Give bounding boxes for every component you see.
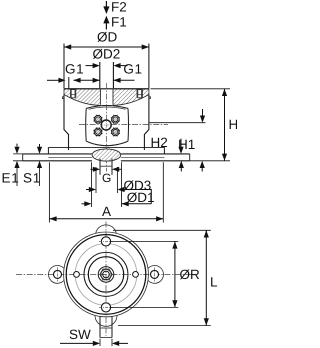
bottom view centerline vertical — [105, 222, 107, 337]
bell housing outer wall left — [64, 95, 69, 151]
stud circle inner — [101, 269, 111, 279]
flange lip left — [63, 97, 65, 99]
bell foot edges — [48, 147, 164, 154]
svg-text:H: H — [229, 117, 238, 132]
side hole east — [133, 272, 139, 278]
svg-text:ØD2: ØD2 — [93, 47, 121, 62]
dimension H — [190, 89, 239, 161]
dimension G1 left — [65, 61, 100, 76]
plate ear west — [49, 266, 64, 284]
centerline vertical (side view) — [105, 83, 107, 172]
dimension E1 — [2, 144, 20, 186]
dimension force arrow F1 — [103, 15, 126, 30]
core pin circle 3 (hatched) — [93, 127, 102, 136]
svg-text:L: L — [210, 275, 218, 290]
svg-text:S1: S1 — [23, 170, 41, 185]
flange lip right — [149, 97, 151, 99]
stud bottom view — [100, 317, 112, 338]
side hole west — [74, 272, 80, 278]
bottom view centerline horizontal — [16, 273, 196, 275]
dimension OD (flange diameter) — [64, 30, 149, 89]
dimension SW — [60, 327, 128, 346]
screw circle (phantom) — [75, 244, 137, 306]
centerline horizontal (side view) — [79, 124, 168, 126]
throat extension lines — [99, 62, 101, 88]
core pin circle 1 (hatched) — [93, 115, 102, 124]
svg-text:F2: F2 — [111, 0, 127, 14]
lower dimension row double arrow — [73, 78, 99, 83]
screw hole crosshairs — [99, 241, 113, 307]
core pin circle 2 (hatched) — [111, 115, 120, 124]
dome circle — [88, 257, 123, 292]
dimension OD3 — [86, 167, 151, 204]
bolt right — [138, 90, 142, 98]
svg-text:A: A — [102, 204, 111, 219]
top flange cross-section (hatched) — [64, 88, 149, 106]
plate outline circle — [64, 232, 149, 317]
svg-text:F1: F1 — [111, 15, 127, 30]
stud below dome — [100, 159, 112, 175]
mid ring — [84, 252, 128, 296]
dimension H2 — [151, 135, 184, 172]
rubber dome through plate — [92, 149, 121, 161]
svg-text:G1: G1 — [123, 61, 142, 76]
svg-text:ØD: ØD — [97, 30, 118, 45]
svg-text:G1: G1 — [65, 61, 84, 76]
plate ear east — [148, 266, 163, 284]
lower dimension row right arrow — [113, 78, 134, 83]
stud hex — [100, 269, 112, 280]
plate lobe south — [95, 315, 117, 326]
stud bore — [103, 271, 110, 278]
screw hole north — [101, 237, 110, 246]
svg-text:H2: H2 — [151, 135, 168, 150]
core pin circle 4 (hatched) — [111, 127, 120, 136]
base plate — [23, 154, 190, 161]
core centre crosshair — [101, 119, 112, 130]
svg-text:G: G — [102, 171, 111, 185]
screw hole south — [101, 303, 110, 312]
core centre circle — [101, 120, 111, 130]
svg-text:SW: SW — [69, 327, 91, 342]
ear hole east — [151, 270, 159, 278]
dimension S1 — [23, 144, 42, 186]
dimension H1 — [149, 109, 205, 172]
dimension A — [49, 162, 163, 222]
svg-text:E1: E1 — [2, 170, 20, 185]
ear hole west — [54, 270, 62, 278]
dimension OR — [111, 241, 200, 307]
bell rim outer circle — [66, 235, 146, 315]
dimension G — [91, 167, 122, 185]
ear hole crosshair west — [57, 267, 59, 281]
washer circle — [98, 267, 114, 283]
bell housing outer wall right — [144, 95, 149, 151]
bolt left — [71, 90, 75, 98]
dimension G1 right — [113, 61, 142, 76]
svg-text:H1: H1 — [178, 137, 195, 152]
plate lobe north — [96, 225, 117, 233]
dimension force arrow F2 — [103, 0, 126, 14]
E1/S1 extension lines — [13, 154, 23, 161]
dimension OD1 — [82, 162, 155, 207]
rubber core element — [86, 106, 129, 146]
svg-text:ØD1: ØD1 — [127, 190, 155, 205]
dimension L — [113, 230, 218, 325]
lower dimension row left arrow — [47, 77, 69, 89]
H top extension line — [151, 88, 231, 90]
svg-text:ØR: ØR — [180, 267, 201, 282]
ear hole crosshair east — [154, 267, 156, 281]
bell foot top — [48, 146, 164, 148]
